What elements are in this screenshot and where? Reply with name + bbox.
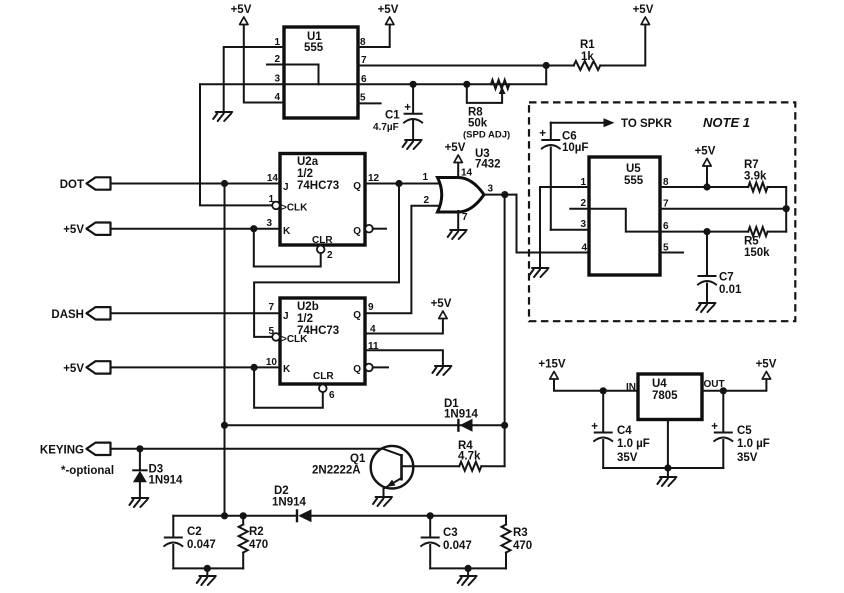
wire U1 pin3 to U2a CLK <box>200 84 272 205</box>
svg-text:R3: R3 <box>513 527 528 539</box>
wire ground stem right <box>467 568 469 575</box>
power +5V at U2b pin4 <box>431 298 452 319</box>
wire OR output <box>484 194 517 196</box>
svg-text:+15V: +15V <box>538 359 566 371</box>
svg-text:6: 6 <box>329 390 335 401</box>
svg-text:+5V: +5V <box>231 4 252 16</box>
resistor R3 470 <box>502 516 533 569</box>
power +5V at U3 pin14 <box>445 142 466 163</box>
svg-text:R1: R1 <box>580 39 595 51</box>
svg-text:74HC73: 74HC73 <box>297 180 339 192</box>
connector KEYING input <box>40 443 111 457</box>
svg-text:2: 2 <box>423 195 429 206</box>
svg-text:4: 4 <box>581 243 587 254</box>
svg-text:C7: C7 <box>719 272 734 284</box>
svg-text:50k: 50k <box>468 118 488 130</box>
wire U2a CLR loop to K <box>254 229 321 267</box>
svg-text:J: J <box>283 311 289 322</box>
svg-text:Q: Q <box>353 310 361 321</box>
capacitor C3 0.047 <box>421 516 472 569</box>
resistor R1 <box>574 39 601 70</box>
svg-text:CLR: CLR <box>313 371 334 382</box>
wire ground stem left <box>206 568 208 575</box>
svg-text:+: + <box>539 128 546 140</box>
svg-text:Q1: Q1 <box>350 453 366 465</box>
wire U2a pin12 Q to OR input 1 <box>365 183 439 185</box>
wire U5 pin3 <box>551 229 589 231</box>
wire U2b pin4 to +5V <box>365 319 443 334</box>
svg-text:>CLK: >CLK <box>281 334 308 345</box>
power +15V input <box>538 359 566 380</box>
svg-text:IN: IN <box>626 382 636 393</box>
svg-text:1N914: 1N914 <box>444 409 478 421</box>
ground at U2b pin11 <box>432 366 451 375</box>
resistor R8 50k SPD ADJ <box>463 80 510 141</box>
svg-text:555: 555 <box>304 42 324 54</box>
svg-text:6: 6 <box>663 221 669 232</box>
svg-text:4.7k: 4.7k <box>458 451 481 463</box>
svg-text:C6: C6 <box>562 131 577 143</box>
clock bubble U2a pin1 <box>272 202 280 210</box>
wire OR input2 from U2b pin9 <box>365 206 439 313</box>
wire U5 pin1 to ground <box>540 187 589 267</box>
junction U2a K-CLR tie <box>250 225 257 232</box>
wire U1 pin3-pin6 timing node <box>200 83 546 85</box>
resistor R2 470 <box>239 516 268 569</box>
wire DOT to U2a pin14 J <box>111 183 281 185</box>
svg-text:7: 7 <box>361 55 367 66</box>
svg-text:C3: C3 <box>443 527 458 539</box>
svg-text:470: 470 <box>513 540 532 552</box>
wire +5V stem U5 pin8 <box>706 167 708 188</box>
wire U2b CLR loop to K <box>254 367 323 407</box>
junction R8 left tap <box>463 81 470 88</box>
junction rail at C3 <box>427 512 434 519</box>
wire +5V to U1 pin4 <box>244 25 284 103</box>
svg-text:+5V: +5V <box>445 142 466 154</box>
svg-text:C4: C4 <box>617 425 632 437</box>
svg-text:555: 555 <box>624 175 644 187</box>
junction Q12 branch <box>395 180 402 187</box>
wire C3 R3 bottom rail <box>430 567 506 569</box>
svg-text:R2: R2 <box>249 526 264 538</box>
svg-text:Q: Q <box>353 226 361 237</box>
svg-text:2: 2 <box>274 54 280 65</box>
svg-text:4.7µF: 4.7µF <box>373 122 399 133</box>
svg-text:+5V: +5V <box>63 224 84 236</box>
NOTE 1 dashed enclosure <box>529 102 795 321</box>
svg-text:14: 14 <box>461 168 473 179</box>
svg-text:3: 3 <box>580 219 586 230</box>
IC U1 555 <box>274 27 367 118</box>
ground at C7 <box>697 303 716 312</box>
wire keyed node D1 line <box>225 424 505 426</box>
connector +5V to U2a K <box>63 223 110 237</box>
svg-text:7: 7 <box>268 302 274 313</box>
svg-text:4: 4 <box>274 92 280 103</box>
wire U5 pin6 <box>660 231 748 233</box>
svg-text:2: 2 <box>580 198 586 209</box>
wire +5V to U2a pin3 K <box>111 228 281 230</box>
connector DOT input <box>60 177 111 191</box>
notQ bubble U2a <box>365 225 373 233</box>
ground at C3 R3 <box>458 576 477 585</box>
junction C1 tap <box>410 81 417 88</box>
junction OR output node <box>501 191 508 198</box>
junction rail at vertical <box>221 512 228 519</box>
ground at U5 pin1 <box>530 268 549 277</box>
junction U4 ground <box>664 464 671 471</box>
svg-text:1: 1 <box>422 172 428 183</box>
svg-text:U5: U5 <box>626 163 641 175</box>
IC U2a 74HC73 <box>266 154 379 262</box>
capacitor C6 10uF <box>539 123 588 230</box>
wire +5V to U2b pin10 K <box>111 366 281 368</box>
svg-text:12: 12 <box>368 173 380 184</box>
wire R1 to +5V <box>600 25 645 66</box>
svg-text:150k: 150k <box>744 247 770 259</box>
svg-text:7432: 7432 <box>475 159 501 171</box>
ground at U3 pin7 <box>448 230 467 239</box>
wire OR output down to R4 <box>504 195 506 467</box>
capacitor C2 0.047 <box>164 516 215 569</box>
wire U5 pin7 <box>660 208 786 210</box>
svg-text:J: J <box>283 182 289 193</box>
wire C2 R2 bottom rail <box>173 567 243 569</box>
power +5V output <box>756 359 777 380</box>
ground at Q1 emitter <box>373 497 392 506</box>
svg-text:D2: D2 <box>274 485 289 497</box>
wire U4 OUT to +5V <box>702 380 766 391</box>
wire U3 pin7 to ground <box>457 211 459 229</box>
IC U2b 74HC73 <box>266 298 379 401</box>
IC U4 7805 regulator <box>626 374 725 420</box>
svg-text:+5V: +5V <box>63 363 84 375</box>
svg-text:1N914: 1N914 <box>149 475 183 487</box>
junction bottom rail right ground <box>465 565 472 572</box>
svg-text:C1: C1 <box>385 110 400 122</box>
wire R5 right to feedback node <box>768 231 787 233</box>
ground at C2 R2 <box>197 576 216 585</box>
wire TO SPKR <box>551 118 673 130</box>
svg-text:U2b: U2b <box>297 301 319 313</box>
power +5V after R1 <box>633 4 654 25</box>
wire U5 pin8 <box>660 186 748 188</box>
clock bubble U2b pin5 <box>272 333 280 341</box>
junction U5 pin8 +5V <box>703 183 710 190</box>
svg-text:0.01: 0.01 <box>719 284 742 296</box>
svg-text:9: 9 <box>368 302 374 313</box>
wire DASH to U2b pin7 J <box>111 312 281 314</box>
wire U5 pin5 stub <box>660 252 683 254</box>
svg-text:10µF: 10µF <box>562 142 588 154</box>
svg-text:+: + <box>404 102 411 114</box>
wire U1 pin6 up to pin7 line <box>545 66 547 85</box>
wire U1 pin5 stub <box>358 102 381 104</box>
clear bubble U2a pin2 <box>317 246 325 254</box>
power +5V at U1 pin4 <box>231 4 252 25</box>
wire R7 right to feedback node <box>768 187 787 232</box>
power +5V at U5 pin8 <box>695 146 716 167</box>
svg-text:+5V: +5V <box>695 146 716 158</box>
junction C5 tap <box>720 387 727 394</box>
capacitor C4 1.0uF 35V <box>591 391 650 468</box>
svg-text:1N914: 1N914 <box>272 497 306 509</box>
ground at D3 <box>129 498 148 507</box>
diode D1 1N914 <box>444 398 478 432</box>
svg-text:U4: U4 <box>652 378 667 390</box>
svg-text:1.0 µF: 1.0 µF <box>737 438 770 450</box>
junction DOT line vertical tap <box>221 180 228 187</box>
wire OR output to U5 pin4 <box>517 195 590 253</box>
svg-text:3: 3 <box>488 184 494 195</box>
svg-text:5: 5 <box>360 93 366 104</box>
svg-text:35V: 35V <box>737 452 758 464</box>
svg-text:C2: C2 <box>187 526 202 538</box>
svg-text:U2a: U2a <box>297 156 319 168</box>
svg-text:CLR: CLR <box>312 235 333 246</box>
svg-text:10: 10 <box>266 357 278 368</box>
svg-text:+5V: +5V <box>431 298 452 310</box>
svg-text:3.9k: 3.9k <box>744 171 767 183</box>
notQ bubble U2b <box>365 364 373 372</box>
capacitor C7 0.01 <box>698 232 742 302</box>
svg-text:C5: C5 <box>737 425 752 437</box>
wire U4 ground stem <box>667 468 669 476</box>
wire U2a notQ stub <box>373 228 386 230</box>
ground at U4 <box>657 477 676 486</box>
svg-text:KEYING: KEYING <box>40 445 84 457</box>
svg-text:1/2: 1/2 <box>297 168 313 180</box>
svg-text:7: 7 <box>462 212 468 223</box>
wire U4 bottom rail <box>603 467 723 469</box>
wire U5 pin2 internal tie to pin6 <box>570 209 660 232</box>
svg-text:*-optional: *-optional <box>61 465 114 477</box>
ground at C1 <box>403 140 422 149</box>
wire bottom rail right of D2 <box>312 515 507 517</box>
junction bottom rail left ground <box>204 565 211 572</box>
capacitor C5 1.0uF 35V <box>711 391 770 468</box>
transistor Q1 2N2222A <box>312 446 459 496</box>
svg-text:1k: 1k <box>581 51 594 63</box>
power +5V at U1 pin8 <box>378 4 399 25</box>
wire U4 ground leg <box>667 420 669 469</box>
wire U1 pin8 to +5V <box>358 25 390 47</box>
svg-text:+5V: +5V <box>633 4 654 16</box>
svg-text:470: 470 <box>249 539 268 551</box>
svg-text:Q: Q <box>353 364 361 375</box>
svg-text:1/2: 1/2 <box>297 313 313 325</box>
junction U5 pin6 C7 tap <box>703 228 710 235</box>
svg-text:NOTE 1: NOTE 1 <box>703 115 750 130</box>
junction U1 pin7 node <box>543 62 550 69</box>
junction D3 tap <box>136 445 143 452</box>
junction pin7 feedback node <box>783 205 790 212</box>
svg-text:R5: R5 <box>744 236 759 248</box>
wire KEYING to Q1 collector <box>111 448 384 450</box>
wire U2b pin11 to ground <box>365 350 443 365</box>
svg-text:+: + <box>591 421 598 433</box>
svg-text:0.047: 0.047 <box>443 540 472 552</box>
clear bubble U2b pin6 <box>319 385 327 393</box>
svg-text:0.047: 0.047 <box>187 539 216 551</box>
svg-text:2N2222A: 2N2222A <box>312 465 361 477</box>
junction keyed node left <box>221 422 228 429</box>
svg-text:>CLK: >CLK <box>281 203 308 214</box>
wire Q12 down to U2b clock <box>254 184 399 337</box>
resistor R4 4.7k <box>458 440 505 471</box>
svg-text:DASH: DASH <box>51 309 84 321</box>
wire long vertical DOT node down to timing rail <box>224 184 226 516</box>
svg-text:2: 2 <box>327 250 333 261</box>
wire U3 pin14 to +5V <box>457 163 459 178</box>
svg-text:7805: 7805 <box>652 390 678 402</box>
diode D2 1N914 <box>272 485 312 522</box>
junction keyed node right <box>501 422 508 429</box>
junction rail at R2 <box>240 512 247 519</box>
wire U2b notQ stub <box>373 366 388 368</box>
svg-text:3: 3 <box>274 74 280 85</box>
svg-text:35V: 35V <box>617 452 638 464</box>
svg-text:+5V: +5V <box>378 4 399 16</box>
svg-text:K: K <box>283 364 291 375</box>
capacitor C1 4.7uF <box>373 84 422 139</box>
svg-text:+5V: +5V <box>756 359 777 371</box>
svg-text:1.0 µF: 1.0 µF <box>617 438 650 450</box>
wire +15V to U4 IN <box>554 380 638 391</box>
wire bottom timing rail <box>173 515 297 517</box>
junction U2b K-CLR tie <box>251 364 258 371</box>
svg-text:K: K <box>283 226 291 237</box>
resistor R7 3.9k <box>744 159 768 192</box>
svg-text:R7: R7 <box>744 159 759 171</box>
wire U1 pin1 to ground <box>224 47 284 111</box>
connector DASH input <box>51 307 110 321</box>
svg-text:+: + <box>711 421 718 433</box>
ground at U1 pin1 <box>213 112 232 121</box>
IC U5 555 <box>580 157 669 275</box>
op-amp style OR gate U3 7432 <box>422 148 500 223</box>
svg-text:(SPD ADJ): (SPD ADJ) <box>463 130 510 141</box>
connector +5V to U2b K <box>63 361 110 375</box>
junction C4 tap <box>600 387 607 394</box>
resistor R5 150k <box>744 227 770 259</box>
svg-text:14: 14 <box>267 173 279 184</box>
wire U1 pin2 internal tie to pin6 <box>267 65 319 85</box>
svg-text:TO SPKR: TO SPKR <box>621 118 673 130</box>
svg-text:Q: Q <box>353 181 361 192</box>
diode D3 1N914 <box>133 449 183 497</box>
svg-text:3: 3 <box>266 218 272 229</box>
wire U1 pin7 <box>358 65 574 67</box>
svg-text:DOT: DOT <box>60 179 84 191</box>
